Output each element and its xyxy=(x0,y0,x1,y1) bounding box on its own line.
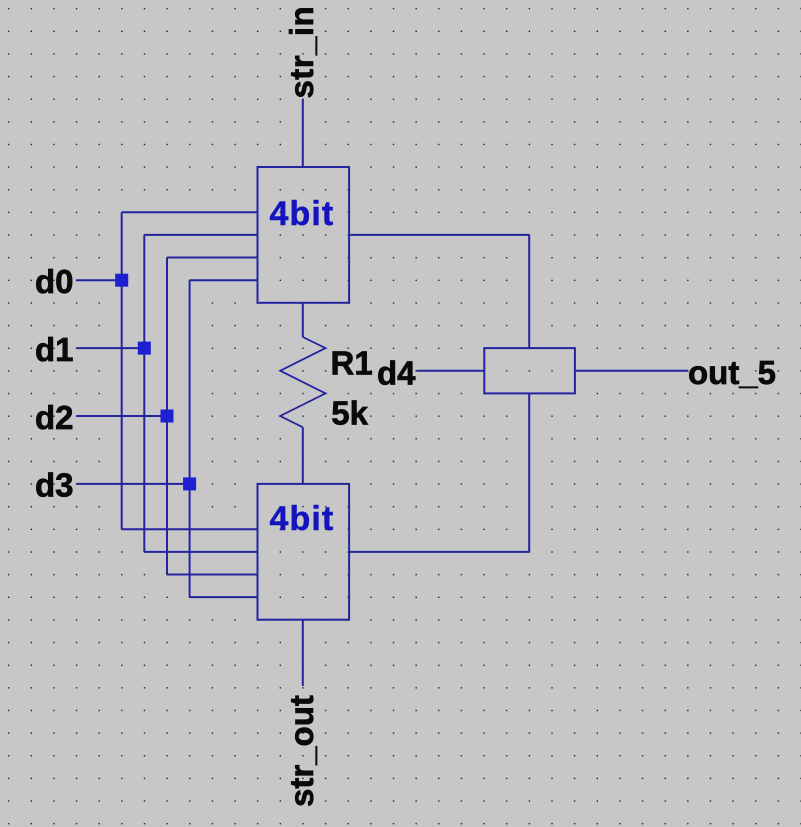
wire vertical bus line 1 xyxy=(121,212,123,529)
svg-text:4bit: 4bit xyxy=(270,195,335,233)
wire U1 pin2 horizontal xyxy=(144,234,257,236)
svg-text:R1: R1 xyxy=(331,344,373,381)
wire U1 pin1 horizontal xyxy=(122,211,258,213)
wire vertical bus line 2 xyxy=(143,235,145,552)
wire U2 pin2 horizontal xyxy=(144,551,257,553)
wire d3 stub xyxy=(76,483,189,485)
svg-text:str_out: str_out xyxy=(283,695,320,807)
wire U3 right to out_5 xyxy=(575,370,688,372)
svg-text:str_in: str_in xyxy=(283,6,320,99)
resistor R1 zigzag xyxy=(280,337,325,427)
junction d3 xyxy=(183,477,196,490)
wire corner down to U3 top xyxy=(528,235,530,348)
wire corner left to U2 right pin xyxy=(349,551,529,553)
wire d0 stub xyxy=(76,279,121,281)
wire str_out vertical xyxy=(302,620,304,686)
svg-text:out_5: out_5 xyxy=(688,354,776,391)
wire str_in vertical xyxy=(302,99,304,167)
svg-text:d3: d3 xyxy=(35,467,74,504)
wire U1 pin3 horizontal xyxy=(167,257,258,259)
wire U1 right pin to corner xyxy=(349,234,529,236)
svg-text:5k: 5k xyxy=(331,394,368,431)
component U3 (small box) xyxy=(484,348,575,393)
wire d4 to U3 xyxy=(417,370,485,372)
wire U2 pin1 horizontal xyxy=(122,528,258,530)
component U2 4bit (bottom box) xyxy=(258,484,350,620)
wire d1 stub xyxy=(76,347,144,349)
wire U3 bottom down xyxy=(528,393,530,552)
resistor R1 top lead wire xyxy=(302,303,304,337)
junction d2 xyxy=(161,410,174,423)
svg-text:d2: d2 xyxy=(35,399,74,436)
wire d2 stub xyxy=(76,415,167,417)
junction d1 xyxy=(138,342,151,355)
wire vertical bus line 3 xyxy=(166,258,168,575)
wire vertical bus line 4 xyxy=(189,280,191,597)
resistor R1 bottom lead wire xyxy=(302,427,304,484)
wire U2 pin4 horizontal xyxy=(190,596,258,598)
svg-text:4bit: 4bit xyxy=(270,500,335,538)
wire U2 pin3 horizontal xyxy=(167,574,258,576)
svg-text:d1: d1 xyxy=(35,331,74,368)
wire U1 pin4 horizontal xyxy=(190,279,258,281)
svg-text:d0: d0 xyxy=(35,263,74,300)
junction d0 xyxy=(115,274,128,287)
svg-text:d4: d4 xyxy=(377,354,416,391)
component U1 4bit (top box) xyxy=(258,167,350,303)
